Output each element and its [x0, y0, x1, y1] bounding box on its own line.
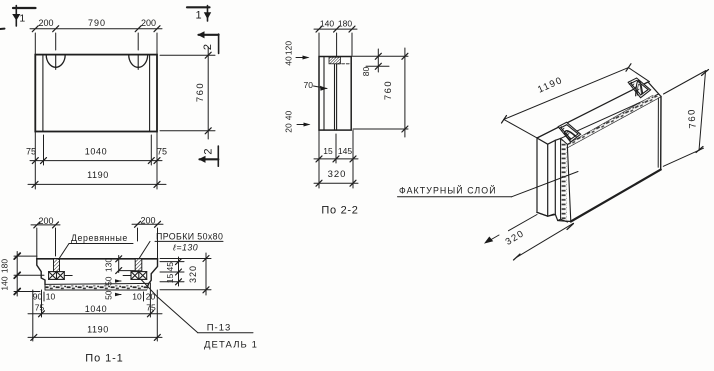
left plug shaft (hatched)	[54, 259, 60, 272]
svg-text:ДЕТАЛЬ 1: ДЕТАЛЬ 1	[204, 340, 258, 351]
bottom front edge thick	[571, 170, 661, 222]
left end: small top edge	[555, 138, 560, 140]
svg-text:1190: 1190	[87, 170, 109, 180]
svg-text:Деревянные: Деревянные	[71, 233, 128, 243]
section mark 1 (top-left)	[12, 6, 35, 27]
svg-text:2: 2	[202, 44, 214, 50]
right plug shaft (hatched)	[135, 259, 142, 271]
svg-text:40: 40	[284, 56, 294, 66]
section mark 1 (top-right)	[187, 6, 211, 22]
svg-text:200: 200	[38, 216, 53, 226]
svg-text:40: 40	[284, 111, 294, 121]
svg-text:70: 70	[304, 80, 314, 90]
svg-text:75: 75	[35, 303, 45, 313]
speckle band on top	[567, 95, 661, 147]
left 40/120 ticks	[296, 56, 310, 60]
svg-text:320: 320	[188, 265, 198, 283]
left inner edge line	[42, 55, 44, 132]
svg-text:ПРОБКИ 50х80: ПРОБКИ 50х80	[156, 232, 223, 242]
svg-text:ФАКТУРНЫЙ СЛОЙ: ФАКТУРНЫЙ СЛОЙ	[399, 185, 497, 196]
right side dims 45/145/320 of section 1-1	[160, 257, 184, 286]
left plug cross box	[49, 272, 65, 280]
leader to left plug	[59, 244, 70, 260]
svg-text:15: 15	[323, 146, 333, 156]
svg-text:145: 145	[338, 146, 352, 156]
svg-text:20: 20	[284, 123, 294, 133]
svg-text:130: 130	[104, 258, 114, 272]
facture layer line left	[323, 57, 325, 131]
leader П-13	[141, 279, 253, 332]
top band back line	[567, 95, 653, 144]
facture strip (speckled)	[45, 283, 149, 290]
right dim 200	[132, 221, 163, 258]
svg-text:П-13: П-13	[207, 323, 232, 334]
svg-text:По 1-1: По 1-1	[85, 353, 123, 365]
right lifting loop	[636, 81, 643, 96]
left recess box	[558, 122, 580, 142]
facture strip end face	[558, 138, 571, 222]
svg-text:10: 10	[46, 292, 56, 302]
svg-text:120: 120	[284, 41, 294, 55]
leader to right plug	[139, 241, 150, 258]
svg-text:45: 45	[165, 262, 175, 272]
right side dimension 760	[160, 47, 215, 139]
svg-text:320: 320	[504, 228, 527, 248]
hidden dashed line below top	[337, 63, 351, 65]
svg-text:2: 2	[203, 148, 215, 154]
section mark 2 (right, lower)	[199, 146, 219, 166]
left dims 180/140 (rotated, far left)	[14, 252, 44, 297]
right dim 760	[353, 48, 408, 137]
svg-text:200: 200	[140, 216, 155, 226]
svg-text:200: 200	[38, 18, 53, 28]
line from left plug box	[64, 275, 72, 277]
left end: step face	[548, 140, 556, 216]
right inner edge	[657, 98, 659, 167]
left loop notch	[46, 55, 65, 68]
top face right edge	[648, 82, 661, 97]
back top edge	[537, 82, 648, 138]
dim 760 (axon)	[663, 70, 708, 167]
leader to facture layer	[512, 172, 579, 197]
top edge thick	[37, 258, 158, 260]
bottom dims 15/145	[314, 130, 358, 188]
scan speck at left edge	[0, 28, 5, 30]
section 1-1 body outline	[37, 259, 158, 288]
line from right plug box	[123, 275, 131, 277]
front face	[567, 97, 661, 222]
dim 1190 bottom	[28, 334, 162, 340]
main block outline	[35, 55, 157, 132]
svg-text:140: 140	[320, 19, 334, 29]
svg-text:75: 75	[157, 147, 167, 157]
svg-text:1040: 1040	[85, 147, 107, 157]
left lifting loop	[565, 131, 576, 141]
svg-text:1190: 1190	[536, 75, 565, 96]
svg-text:180: 180	[0, 259, 10, 273]
svg-text:80: 80	[361, 67, 371, 77]
center dim 130	[116, 256, 136, 274]
main top front line	[561, 94, 659, 138]
left dim 200	[31, 222, 60, 259]
left end: strip 1 face	[537, 138, 548, 216]
section mark 2 (right, upper)	[198, 31, 219, 53]
svg-text:1: 1	[195, 10, 201, 22]
svg-text:790: 790	[88, 18, 106, 28]
svg-text:50: 50	[104, 276, 114, 286]
plug in section (hatched)	[329, 57, 341, 64]
facture strip end speckles	[561, 140, 567, 221]
svg-text:760: 760	[686, 108, 699, 129]
dim 1040 bottom	[28, 283, 162, 341]
svg-text:760: 760	[195, 82, 206, 102]
bottom dim 320	[314, 180, 358, 186]
svg-text:ℓ=130: ℓ=130	[172, 243, 198, 253]
joint double line	[334, 57, 336, 131]
section 2-2 outline	[319, 57, 351, 131]
top dimension line 200/790/200	[30, 26, 162, 55]
bottom dimension 75/1040/75	[30, 132, 162, 190]
svg-text:15: 15	[165, 274, 175, 284]
svg-text:10: 10	[132, 292, 142, 302]
svg-text:1: 1	[19, 12, 25, 24]
svg-text:75: 75	[26, 147, 36, 157]
dim 1190 (axon)	[502, 64, 650, 138]
svg-text:200: 200	[141, 18, 156, 28]
right dim 80	[353, 49, 408, 72]
svg-text:75: 75	[146, 303, 156, 313]
svg-text:140: 140	[0, 276, 10, 290]
bottom dimension 1190	[28, 181, 166, 187]
svg-text:760: 760	[383, 80, 394, 100]
svg-text:320: 320	[328, 169, 347, 180]
svg-text:1040: 1040	[85, 304, 107, 314]
right loop notch	[129, 55, 148, 68]
top dim line 140/180	[314, 26, 357, 56]
right recess box	[628, 78, 650, 98]
svg-text:По 2-2: По 2-2	[321, 205, 358, 217]
right outer edge	[660, 97, 662, 170]
dim 320 (axon)	[484, 215, 574, 261]
front top edge	[567, 97, 661, 148]
bottom end zigzag	[537, 212, 571, 221]
right inner edge line	[149, 55, 151, 132]
svg-text:50: 50	[104, 290, 114, 300]
svg-text:180: 180	[338, 19, 352, 29]
right plug cross box	[131, 272, 147, 280]
svg-text:1190: 1190	[87, 324, 109, 334]
